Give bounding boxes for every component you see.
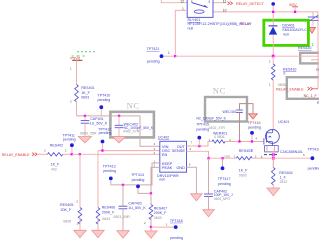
label RES407 0603 (154, 216, 162, 220)
label RES402 402 (51, 167, 57, 171)
RES403 pin2 (255, 155, 257, 159)
TPT414 dot and stub (136, 185, 151, 194)
svg-text:12: 12 (180, 0, 184, 3)
svg-text:pending: pending (248, 126, 261, 130)
capacitor WEC401 (236, 110, 243, 112)
svg-text:pending: pending (103, 169, 116, 173)
label RES410 package 0805 (278, 83, 286, 87)
wire relay pin1 down to rail (175, 10, 187, 56)
svg-text:TPT413: TPT413 (103, 164, 116, 168)
wire WEC401 top to red arrow (240, 104, 254, 114)
pin name PEAK (162, 165, 173, 170)
label CAP402 package (214, 197, 231, 201)
svg-text:RES406: RES406 (102, 206, 115, 210)
green mark P1 (311, 42, 314, 47)
svg-text:200K_F: 200K_F (102, 210, 115, 214)
net label RELAY_ENABLE left (2, 153, 30, 157)
label HF105F part number (188, 22, 253, 26)
pin 6 mark near source (261, 155, 263, 159)
svg-text:WEC401: WEC401 (222, 110, 236, 114)
label RES407 100K_F (154, 211, 167, 215)
capacitor WEC402 (115, 116, 124, 137)
label null (283, 33, 289, 37)
label RES405 (60, 203, 73, 207)
svg-text:0805: 0805 (278, 83, 286, 87)
coil rail y=56 (175, 55, 319, 57)
svg-text:1K_F: 1K_F (239, 169, 248, 173)
junction WEC402 (118, 115, 120, 117)
supply node wire y=115.9 (77, 116, 160, 146)
svg-text:UC402: UC402 (158, 135, 169, 139)
label null near WER401 (225, 154, 231, 158)
svg-text:pending: pending (170, 236, 183, 240)
TPT419 pending (308, 167, 320, 171)
svg-text:1: 1 (168, 51, 170, 55)
label CAP402 value (214, 193, 233, 197)
svg-text:pending: pending (63, 138, 76, 142)
label WER401 (213, 131, 227, 135)
label RES407 (154, 207, 167, 211)
RES402 pin1 (65, 149, 67, 153)
label CAP401 package (80, 132, 97, 136)
svg-text:RES402: RES402 (50, 143, 63, 147)
label CAP403 value (128, 206, 146, 210)
MOSFET package box (265, 146, 279, 152)
IC UC402 (160, 141, 187, 172)
svg-text:RES401: RES401 (81, 86, 94, 90)
net label RELAY_ENABLE right (276, 88, 304, 92)
test point TPT417 label (218, 177, 231, 181)
svg-text:NC_1_F: NC_1_F (304, 94, 317, 98)
svg-text:TPT417: TPT417 (218, 177, 231, 181)
TPT421 pending (147, 60, 160, 64)
RES401 pin1 tick (70, 66, 72, 70)
pin number 5 GND (189, 163, 191, 167)
svg-text:SM1100ACR-C: SM1100ACR-C (282, 28, 307, 32)
label RES401 1K_F (81, 91, 90, 95)
svg-text:UC401: UC401 (278, 120, 289, 124)
svg-text:SENSE: SENSE (172, 148, 186, 153)
test point TPT415 label (196, 123, 209, 127)
label RES406 (102, 206, 115, 210)
ground under RES405 (74, 230, 86, 238)
svg-text:0603_X5R: 0603_X5R (80, 132, 97, 136)
label RES402 (50, 143, 63, 147)
svg-text:HF105F/12-2HBTF(101)(955)_RELA: HF105F/12-2HBTF(101)(955)_RELAY (188, 22, 253, 26)
label WER401 value (214, 135, 224, 139)
label RES403 1K_F (239, 169, 248, 173)
junction TPT418 (150, 226, 152, 228)
relay RLY401 body (187, 0, 213, 17)
svg-text:PEAK: PEAK (162, 165, 173, 170)
pin number 4 VIN (154, 142, 156, 146)
wire pin11 of relay to off-page connector (213, 2, 227, 4)
pin name OSC (162, 148, 171, 153)
svg-text:0603_X5R: 0603_X5R (113, 215, 130, 219)
capacitor CAP401 (81, 116, 90, 137)
OUT wire (187, 142, 213, 147)
label UC402 (158, 135, 169, 139)
resistor RES407 (149, 193, 153, 231)
transistor UC401 (264, 130, 279, 146)
resistor RES403 (236, 157, 273, 160)
TPT417 pending (218, 182, 231, 186)
test point TPT411 label (62, 133, 75, 137)
label WEC402 (124, 122, 138, 126)
svg-text:CJAC655N10L: CJAC655N10L (280, 150, 303, 154)
ground at UC402 GND (191, 194, 203, 201)
NC box 4 (RES420 top right) (300, 53, 320, 64)
NC box 2 (around WEC401) (205, 97, 247, 122)
wire to RES402 (38, 153, 48, 155)
TPT414 pending (132, 178, 145, 182)
net label RELAY_DETECT (236, 2, 265, 6)
TPT411 dot and stub (70, 143, 74, 154)
junction MOSFET source upper (272, 153, 275, 156)
label RES410 value 0 (283, 72, 285, 76)
svg-text:TPT419: TPT419 (307, 148, 319, 152)
svg-text:NC_1000pF_50V_K: NC_1000pF_50V_K (196, 116, 226, 120)
wire RELAY_DETECT vertical through diode (272, 13, 274, 26)
label RES403 0603 (239, 173, 247, 177)
label 0402_X7R WEC401 (209, 126, 226, 130)
svg-text:pending: pending (147, 60, 160, 64)
svg-text:6: 6 (251, 148, 253, 152)
junction RES405 (79, 153, 81, 155)
svg-text:pending: pending (308, 167, 319, 171)
label CAP402 (214, 189, 227, 193)
GND wire UC402 (187, 167, 197, 194)
wire source down (272, 152, 274, 168)
TPT416 pending (248, 126, 261, 130)
NC label for box 2 (213, 86, 226, 96)
TPT412 dot and stub (101, 140, 105, 151)
svg-text:1U_50V_K: 1U_50V_K (90, 121, 108, 125)
capacitor CAP402 (204, 158, 213, 210)
RES407 pin marks (144, 221, 146, 225)
svg-text:5/0V: 5/0V (289, 3, 297, 7)
svg-text:10: 10 (223, 8, 227, 12)
svg-text:RELAY_ENABLE: RELAY_ENABLE (2, 153, 30, 157)
resistor RES406 (96, 151, 100, 231)
label CJAC655N10L (280, 150, 303, 154)
TPT421 dot (160, 54, 164, 58)
junction at 175,56 (174, 55, 176, 57)
svg-text:TPT416: TPT416 (248, 121, 261, 125)
NC box 1 (around WEC402) (110, 112, 153, 138)
ground under CAP403 (117, 231, 129, 238)
svg-text:TPT421: TPT421 (147, 47, 160, 51)
svg-text:0603: 0603 (239, 173, 247, 177)
label WEC401 (222, 110, 236, 114)
label RES401 0603 (81, 96, 89, 100)
wire WEC401 bottom to gate (239, 112, 241, 141)
net label NC_1_F (304, 94, 317, 98)
junction CAP402 (207, 157, 209, 159)
resistor RES401 (75, 66, 79, 116)
NC label for box 1 (127, 100, 140, 110)
wire pin10 rail y=11.9 (213, 12, 318, 89)
test point TPT418 label (170, 219, 183, 223)
label RES405 0805 (63, 219, 71, 223)
ground under RES407 (145, 231, 157, 238)
junction at 295,11.9 (294, 11, 296, 13)
svg-text:RELAY_ENABLE: RELAY_ENABLE (276, 88, 304, 92)
ground under RES404 (267, 188, 280, 196)
WER401 pin2 (229, 138, 231, 142)
svg-text:null: null (225, 154, 231, 158)
svg-text:pending: pending (196, 128, 209, 132)
WER401 pin1 (209, 138, 211, 142)
svg-text:RES407: RES407 (154, 207, 167, 211)
blue clipped text right edge above box3 (316, 68, 319, 72)
pin name SENSE (172, 148, 186, 153)
svg-text:2512: 2512 (280, 180, 288, 184)
junction TPT412/OSC (101, 149, 103, 151)
resistor RES404 (271, 158, 275, 188)
label SM1100ACR-C (282, 28, 307, 32)
svg-text:NC: NC (213, 86, 226, 96)
pin number 3 OSC (154, 147, 156, 151)
capacitor CAP403 (119, 185, 128, 231)
TPT415 dot and stub (197, 136, 201, 146)
relay pin number 1 (182, 7, 184, 11)
label RES405 20K_F (61, 208, 72, 212)
ground under CAP402 (203, 210, 215, 217)
svg-text:pending: pending (98, 98, 111, 102)
label RES403 (239, 149, 252, 153)
NC box 3 (RELAY_ENABLE right) (287, 77, 320, 99)
junction CAP401 (84, 115, 86, 117)
RES405 pin1 tick (76, 222, 78, 226)
ground under CAP401 (78, 137, 91, 143)
wire below diode (272, 35, 274, 57)
svg-text:11: 11 (223, 0, 227, 3)
svg-text:pending: pending (132, 178, 145, 182)
TPT412 pending (99, 131, 112, 135)
label CAP403 package (113, 215, 130, 219)
label RLY401 (188, 18, 201, 22)
blue mark left of package (251, 148, 253, 152)
svg-text:RES420: RES420 (298, 46, 311, 50)
resistor RES402 (48, 153, 72, 156)
svg-text:RES404: RES404 (279, 171, 292, 175)
test point TPT412 label (98, 127, 111, 131)
pin number 1 of TPT421 (168, 51, 170, 55)
pin name GND (176, 165, 185, 170)
svg-text:TPT414: TPT414 (131, 173, 144, 177)
svg-text:0805: 0805 (63, 219, 71, 223)
TPT419 dot (311, 156, 315, 160)
wire TPT421 to junction (163, 55, 175, 57)
TPT415 pending (196, 128, 209, 132)
junction TPT416/gate (251, 140, 253, 142)
TPT410 dot and stub (99, 105, 103, 116)
KEEP wire (111, 163, 160, 185)
test point dot at RELAY_DETECT (271, 2, 275, 12)
pin number 6 PEAK (154, 164, 156, 168)
svg-text:RES403: RES403 (239, 149, 252, 153)
MOSFET UC401 label (278, 120, 289, 124)
resistor RES410 (271, 56, 275, 129)
ground under WEC402 (112, 137, 125, 143)
svg-text:TPT415: TPT415 (196, 123, 209, 127)
junction PEAK (150, 192, 152, 194)
label CAP401 value (90, 121, 108, 125)
label DRV110PWR (157, 174, 179, 178)
svg-text:EN: EN (162, 152, 168, 157)
junction WEC401/gate (238, 140, 240, 142)
test point TPT421 (147, 47, 160, 51)
svg-text:0603: 0603 (102, 217, 110, 221)
label RES420 (298, 46, 311, 50)
svg-text:R: R (316, 68, 319, 72)
resistor WER401 (212, 140, 264, 143)
off-page connector RELAY_DETECT (227, 2, 232, 5)
svg-text:null: null (283, 33, 289, 37)
RES402 pin2 (44, 149, 46, 153)
svg-text:0603_NPO: 0603_NPO (214, 197, 231, 201)
svg-text:CAP403: CAP403 (128, 201, 141, 205)
svg-text:1U_50V_K: 1U_50V_K (128, 206, 146, 210)
relay switch armature (192, 1, 209, 8)
RES401 pin2 tick (70, 100, 72, 104)
pin name VIN (162, 144, 169, 149)
EN wire (72, 153, 160, 155)
pin name KEEP (162, 161, 173, 166)
pin number 7 OUT (190, 141, 192, 145)
test point TPT414 label (131, 173, 144, 177)
RES420 stub wire (311, 59, 319, 61)
svg-text:0603: 0603 (154, 216, 162, 220)
wire to TPT418 (151, 226, 174, 228)
pin 5 mark near TPT419 wire (303, 153, 305, 157)
TPT416 dot and stub (250, 131, 254, 142)
label DIO401 (282, 23, 294, 27)
label RES402 1K_F (51, 162, 60, 166)
SENSE wire (187, 151, 237, 158)
test point TPT419 label (307, 148, 320, 152)
ground under RES406 (92, 230, 104, 238)
label RES404 1_F (280, 176, 287, 180)
blue clipped text right edge below box3 (317, 101, 320, 105)
svg-text:0402_X7R: 0402_X7R (209, 126, 226, 130)
svg-text:GND: GND (176, 165, 185, 170)
package pin marks (264, 154, 277, 156)
test point TPT410 label (98, 94, 111, 98)
RES403 pin1 (234, 154, 236, 158)
svg-text:0 0805: 0 0805 (214, 135, 224, 139)
label CAP403 (128, 201, 141, 205)
RES410 pin 1 tick (269, 83, 271, 87)
svg-text:RES410: RES410 (283, 67, 296, 71)
svg-text:null: null (188, 26, 194, 30)
svg-text:0603: 0603 (81, 96, 89, 100)
svg-text:0: 0 (283, 72, 285, 76)
off-page connector RELAY_ENABLE left (32, 153, 37, 156)
relay pin number 10 (223, 8, 227, 12)
svg-text:RES405: RES405 (60, 203, 73, 207)
junction at 273,56 (272, 55, 275, 58)
svg-text:200K_F: 200K_F (154, 211, 167, 215)
pin number 2 EN (154, 151, 156, 155)
svg-text:pending: pending (99, 131, 112, 135)
svg-text:402: 402 (51, 167, 57, 171)
TPT413 pending (103, 169, 116, 173)
label CAP401 (90, 117, 103, 121)
label null relay (188, 26, 194, 30)
svg-text:1K_F: 1K_F (81, 91, 90, 95)
svg-text:20K_F: 20K_F (61, 208, 72, 212)
junction TPT417 (221, 157, 223, 159)
TPT411 pending (63, 138, 76, 142)
red arrow symbol below crossed cap (309, 28, 316, 34)
svg-text:pending: pending (218, 182, 231, 186)
label RES404 2512 (280, 180, 288, 184)
TPT418 pending (170, 236, 183, 240)
svg-text:NC: NC (127, 100, 140, 110)
TPT418 pin 1 (166, 222, 168, 226)
svg-text:R: R (317, 101, 319, 105)
PEAK wire (151, 167, 160, 193)
RES405 pin2 tick (76, 200, 78, 204)
red arrow symbol TPT416 (249, 114, 258, 119)
TPT417 dot and stub (221, 158, 225, 170)
junction TPT411 (71, 153, 73, 155)
svg-text:DIO401: DIO401 (282, 23, 294, 27)
pin name OUT (177, 144, 186, 149)
junction CAP403 (122, 184, 124, 186)
green highlight box around DIO401 (264, 20, 309, 45)
junction at 273,11.9 (272, 11, 274, 13)
relay pin number 12 (180, 0, 184, 3)
test point TPT413 label (103, 164, 116, 168)
RES410 pin 2 tick (269, 60, 271, 64)
junction MOSFET source on sense wire (272, 157, 275, 160)
TPT410 pending (98, 98, 111, 102)
crossed-out capacitor top right (308, 12, 319, 26)
label WEC402 value (124, 126, 154, 130)
label RES406 0603 (102, 217, 110, 221)
net label RELAY (240, 22, 252, 26)
label TPT416 (248, 121, 261, 125)
svg-text:TPT410: TPT410 (98, 94, 111, 98)
off-page connector RELAY_ENABLE right (308, 87, 319, 90)
label RES406 200K_F (102, 210, 115, 214)
diode DIO401 (269, 26, 278, 35)
wire pin12 of relay up to top edge (161, 0, 187, 3)
svg-text:1K_F: 1K_F (51, 162, 60, 166)
TPT413 dot and stub (109, 177, 113, 185)
pin number 1 KEEP (154, 159, 156, 163)
junction TPT415 (198, 145, 200, 147)
TPT418 dot (174, 225, 178, 229)
svg-text:0402_X7R: 0402_X7R (123, 130, 140, 134)
power port 5/0V (289, 3, 298, 12)
label RES404 (279, 171, 292, 175)
relay coil (194, 10, 204, 13)
svg-text:RELAY_DETECT: RELAY_DETECT (236, 2, 265, 6)
pin number 4 gate (255, 137, 257, 141)
label WEC402 package (123, 130, 140, 134)
label RES401 (81, 86, 94, 90)
svg-text:null: null (159, 178, 165, 182)
label null UC402 (159, 178, 165, 182)
wire to TPT419 (273, 157, 310, 159)
label RES410 (283, 67, 296, 71)
pin number 8 SENSE (190, 147, 192, 151)
label NC_1000pF_50V_K WEC401 (196, 116, 226, 120)
